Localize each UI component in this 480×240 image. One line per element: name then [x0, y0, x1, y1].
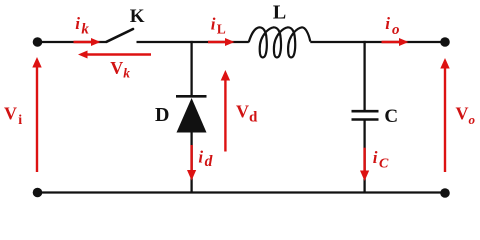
voltage arrow V_d	[221, 70, 230, 152]
svg-text:C: C	[384, 106, 398, 127]
capacitor C top plate	[352, 110, 379, 113]
wire top right segment	[310, 41, 445, 43]
svg-text:D: D	[155, 104, 169, 126]
switch K blade	[107, 29, 134, 42]
node top-left terminal	[33, 37, 43, 47]
svg-text:id: id	[198, 148, 212, 171]
diode D triangle	[177, 98, 207, 133]
svg-text:Vi: Vi	[4, 104, 22, 129]
wire top-left segment	[38, 41, 107, 43]
voltage arrow V_k	[78, 51, 151, 59]
current arrow i_o	[382, 38, 409, 46]
svg-text:Vd: Vd	[236, 102, 258, 126]
wire top middle segment	[137, 41, 249, 43]
wire capacitor branch lower	[363, 120, 365, 193]
inductor L	[249, 27, 311, 57]
wire diode branch upper	[190, 41, 192, 96]
svg-text:io: io	[385, 14, 399, 38]
node bottom-left terminal	[33, 188, 43, 198]
voltage arrow V_i input	[32, 57, 41, 172]
wire diode branch lower	[190, 133, 192, 193]
capacitor C bottom plate	[352, 118, 379, 121]
svg-text:ik: ik	[75, 14, 89, 38]
svg-text:L: L	[273, 2, 286, 24]
node top-right terminal	[440, 37, 450, 47]
svg-text:K: K	[130, 6, 145, 27]
current arrow i_k	[74, 38, 101, 46]
svg-text:iL: iL	[211, 15, 226, 37]
current arrow i_C	[360, 148, 369, 181]
current arrow i_L	[208, 38, 235, 46]
wire capacitor branch upper	[363, 41, 365, 111]
wire bottom	[38, 191, 446, 193]
node bottom-right terminal	[440, 188, 450, 198]
current arrow i_d	[187, 145, 196, 181]
svg-text:Vo: Vo	[456, 104, 476, 128]
svg-text:Vk: Vk	[110, 58, 130, 81]
diode D cathode bar	[176, 95, 207, 98]
svg-text:iC: iC	[373, 148, 389, 172]
voltage arrow V_o output	[440, 58, 449, 172]
